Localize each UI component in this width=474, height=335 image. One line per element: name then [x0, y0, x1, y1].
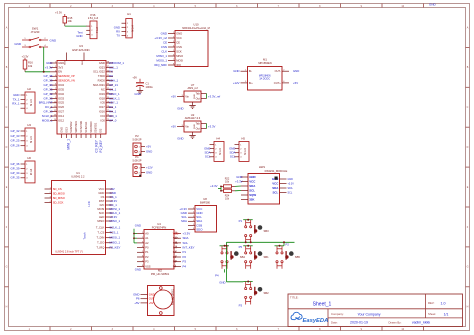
net label +3.3V at HW1 pin2	[235, 180, 243, 184]
svg-text:12: 12	[54, 110, 56, 112]
net label RX_1 at H2	[12, 102, 20, 106]
svg-text:3: 3	[142, 242, 143, 244]
svg-text:DC_1: DC_1	[109, 105, 117, 109]
svg-text:OUT-: OUT-	[275, 69, 281, 73]
svg-text:10k: 10k	[68, 19, 73, 23]
svg-text:2: 2	[55, 66, 56, 68]
net label RX at H1	[116, 30, 120, 34]
svg-text:MISO_1: MISO_1	[110, 219, 121, 223]
svg-text:15: 15	[175, 237, 177, 239]
svg-text:13: 13	[175, 246, 177, 248]
svg-text:SENSOR_VP: SENSOR_VP	[58, 74, 75, 78]
svg-text:7: 7	[142, 260, 143, 262]
net label SDA at U8 pin 4	[181, 219, 187, 223]
net label GP_21 at ESP32 right pin	[109, 83, 118, 87]
svg-text:P2_KEY: P2_KEY	[99, 139, 103, 152]
svg-text:CS: CS	[101, 195, 105, 199]
junction at R22	[220, 186, 222, 188]
net label GND at H4	[204, 147, 210, 151]
svg-text:M 1x4: M 1x4	[133, 25, 135, 32]
svg-text:SCL: SCL	[249, 188, 255, 192]
net label P2 at U4 right pin	[183, 255, 187, 259]
svg-text:Tab: Tab	[196, 121, 201, 125]
svg-text:RXD0: RXD0	[98, 79, 106, 83]
svg-text:P3: P3	[145, 260, 149, 264]
net label CLK at U10 pin 5	[161, 49, 167, 53]
svg-text:+5V: +5V	[293, 81, 298, 85]
svg-text:Sheet_1: Sheet_1	[313, 302, 332, 308]
svg-text:PCF8574PN: PCF8574PN	[152, 225, 167, 229]
svg-text:3: 3	[193, 216, 194, 218]
svg-text:SB5: SB5	[295, 255, 301, 259]
voltage regulator U7 AMS_ref	[177, 83, 207, 108]
svg-text:GND: GND	[194, 94, 196, 99]
svg-text:GP_36: GP_36	[11, 162, 20, 166]
button cap dot at SB5	[289, 251, 294, 256]
svg-text:MISO_1: MISO_1	[109, 92, 120, 96]
switch SW1 JT1230	[22, 27, 48, 48]
net label P5 at SB1	[239, 245, 243, 249]
svg-text:SENSOR_VN: SENSOR_VN	[58, 79, 75, 83]
svg-text:MOSI_1: MOSI_1	[110, 236, 121, 240]
net label GND at P1	[146, 170, 152, 174]
net label P4 at U4 right pin	[183, 264, 187, 268]
svg-text:IO17: IO17	[99, 105, 105, 109]
svg-text:2: 2	[193, 212, 194, 214]
svg-text:P2: P2	[135, 134, 139, 138]
IO expander U4 PCF8574PN	[137, 222, 181, 269]
net label SCL at U4 right pin	[183, 241, 189, 245]
header H1 1x4	[122, 12, 135, 38]
power flag +3.3V at R16	[22, 55, 29, 61]
PIR sensor module M2 PIR_HC-SR501	[141, 269, 175, 316]
label SB5	[295, 255, 301, 259]
svg-text:RX_1: RX_1	[12, 102, 20, 106]
svg-text:IO16: IO16	[99, 110, 105, 114]
svg-text:Touch: Touch	[83, 232, 87, 239]
svg-text:GND: GND	[76, 34, 82, 38]
svg-text:LED: LED	[99, 215, 104, 219]
svg-text:IO0: IO0	[100, 118, 105, 122]
svg-text:2: 2	[142, 237, 143, 239]
svg-text:T_DO: T_DO	[97, 241, 104, 245]
power flag +3.3V at R15	[55, 11, 65, 17]
svg-text:6: 6	[55, 84, 56, 86]
net label MOSI_1 at U1 touch pin	[110, 236, 121, 240]
svg-text:SD_CS: SD_CS	[53, 187, 62, 191]
svg-text:MOSI_1: MOSI_1	[42, 118, 53, 122]
svg-text:13: 13	[54, 115, 56, 117]
svg-text:IO14: IO14	[58, 114, 64, 118]
svg-text:WROOM_1: WROOM_1	[109, 61, 124, 65]
svg-text:Tab: Tab	[196, 91, 201, 95]
svg-text:SCLK_1: SCLK_1	[109, 96, 120, 100]
svg-text:14: 14	[175, 242, 177, 244]
svg-text:GND: GND	[177, 136, 183, 140]
svg-text:M 1x4: M 1x4	[31, 168, 33, 175]
svg-text:OUT: OUT	[149, 297, 155, 301]
svg-text:GP_25: GP_25	[11, 139, 20, 143]
wire bus to SB2	[227, 281, 244, 283]
net label GP_0 at ESP32 right pin	[109, 118, 117, 122]
net label SDA at U4 right pin	[183, 236, 189, 240]
svg-text:DC_1: DC_1	[45, 105, 53, 109]
svg-text:IO12: IO12	[58, 118, 64, 122]
svg-text:C: C	[467, 106, 469, 109]
svg-text:SB3: SB3	[264, 229, 270, 233]
svg-text:GND: GND	[65, 60, 67, 65]
svg-text:SDA: SDA	[288, 187, 293, 190]
wire R24 to HW1 SCL	[235, 190, 241, 192]
svg-text:4: 4	[193, 220, 194, 222]
net label P2_KEY at U1 touch pin	[110, 246, 121, 250]
svg-text:3: 3	[55, 70, 56, 72]
svg-text:CE: CE	[163, 40, 167, 44]
net label SCL at H4	[205, 155, 211, 159]
net label DC_1 at ESP32 left pin 11	[45, 105, 53, 109]
svg-text:SD_SCK: SD_SCK	[53, 200, 64, 204]
svg-text:EasyEDA: EasyEDA	[303, 318, 329, 324]
svg-text:SCK: SCK	[176, 49, 182, 53]
svg-text:AMS_ref: AMS_ref	[187, 86, 197, 90]
svg-text:VCC: VCC	[249, 179, 256, 183]
svg-text:IO34: IO34	[58, 83, 64, 87]
RTC module HW1 DS3231_MODULE	[241, 165, 288, 204]
ESP32 module U3 ESP-32S-WiFi	[50, 44, 113, 138]
net label GND at M2 pin 1	[133, 292, 139, 296]
svg-text:+3.3V_ref: +3.3V_ref	[154, 36, 167, 40]
svg-text:8: 8	[173, 64, 174, 66]
svg-text:+3.3V: +3.3V	[55, 11, 62, 15]
wire R22 to HW1 SDA	[235, 185, 241, 187]
net label GP_36 at H6	[11, 162, 20, 166]
svg-text:8: 8	[142, 265, 143, 267]
svg-text:+3.3V: +3.3V	[210, 184, 218, 188]
net label SDA at H4	[205, 151, 211, 155]
svg-text:MOSI: MOSI	[176, 58, 183, 62]
junction SB5 bus	[283, 241, 285, 243]
svg-text:IO18: IO18	[99, 96, 105, 100]
net label MINI_1 at ESP32 bottom	[67, 139, 71, 150]
net label SCL at H5	[230, 155, 236, 159]
svg-text:+3.3V: +3.3V	[288, 182, 295, 185]
svg-text:5: 5	[173, 50, 174, 52]
voltage regulator U2 AMS1117-3.3	[177, 113, 207, 138]
svg-text:P2: P2	[286, 243, 290, 247]
svg-text:VCC: VCC	[272, 181, 279, 185]
svg-text:MISO: MISO	[97, 219, 104, 223]
svg-text:SDA IO21: SDA IO21	[93, 83, 105, 87]
svg-text:7: 7	[173, 59, 174, 61]
svg-text:MP1584EN: MP1584EN	[259, 75, 271, 77]
wire R15 to P16 pin 1	[65, 25, 87, 27]
svg-text:2.54_1x3: 2.54_1x3	[88, 17, 99, 20]
net label GND top right	[429, 3, 437, 7]
svg-text:9: 9	[55, 97, 56, 99]
svg-text:SCL_1: SCL_1	[109, 65, 118, 69]
svg-text:VCC: VCC	[176, 36, 182, 40]
svg-text:1/1: 1/1	[444, 313, 449, 317]
svg-text:Sheet:: Sheet:	[428, 312, 436, 316]
svg-text:T_IRQ: T_IRQ	[96, 246, 104, 250]
svg-text:6: 6	[173, 55, 174, 57]
net label MISO_1 at U1 touch pin	[110, 241, 121, 245]
net label GP_32 at ESP32 left pin 8	[44, 92, 53, 96]
ground symbol at C1	[137, 90, 143, 94]
svg-text:Out: Out	[196, 96, 200, 100]
svg-text:CSN: CSN	[176, 45, 182, 49]
net label SDA at HW1 right pin	[288, 187, 293, 190]
svg-text:32K: 32K	[249, 197, 255, 201]
svg-text:GND: GND	[59, 127, 63, 133]
svg-text:GND: GND	[134, 92, 140, 96]
svg-text:IO4: IO4	[100, 114, 105, 118]
net label GND at SW1 pin 2	[50, 39, 58, 43]
svg-text:RX_1: RX_1	[109, 110, 117, 114]
svg-text:GND: GND	[194, 124, 196, 129]
net label +5V at M1 OUT+	[293, 81, 298, 85]
net label GND at P16	[76, 34, 82, 38]
svg-text:SDA: SDA	[183, 236, 189, 240]
push button SB5	[275, 245, 289, 269]
net label GND at U4 top left	[135, 224, 141, 228]
wire SB4 bottom lead	[224, 269, 226, 272]
svg-text:P1: P1	[239, 219, 243, 223]
svg-text:M 1x4: M 1x4	[31, 99, 33, 106]
net label +3.3V at U1 pin 8	[110, 199, 118, 203]
svg-text:P2: P2	[145, 255, 149, 259]
svg-text:H2: H2	[27, 87, 31, 91]
svg-text:D: D	[467, 146, 469, 149]
net label KEY_1 at ESP32 right pin	[109, 101, 118, 105]
net label GND at C1	[134, 92, 140, 96]
junction at EN wire	[43, 71, 45, 73]
junction SB3 bus right	[250, 241, 252, 243]
svg-text:Drawn By:: Drawn By:	[389, 320, 402, 324]
net label MISO_1 at U1 pin 13	[110, 219, 121, 223]
svg-text:IO23: IO23	[99, 65, 105, 69]
svg-text:MISO: MISO	[176, 54, 183, 58]
net label GND at H2	[13, 93, 19, 97]
svg-text:+3.3V_ref: +3.3V_ref	[208, 94, 220, 98]
svg-text:IRQ: IRQ	[176, 63, 181, 67]
svg-text:3: 3	[173, 41, 174, 43]
net label C3_KEY at ESP32 bottom	[95, 139, 99, 152]
resistor R22 10k	[221, 178, 235, 189]
svg-text:6: 6	[142, 256, 143, 258]
svg-text:H5: H5	[241, 137, 245, 141]
svg-text:H: H	[6, 306, 8, 309]
svg-text:IO26: IO26	[58, 105, 64, 109]
svg-text:1: 1	[193, 208, 194, 210]
push button SB1	[243, 245, 257, 269]
junction at R24	[220, 190, 222, 192]
svg-text:MISO_1: MISO_1	[110, 241, 121, 245]
net label GND at U1 pin 6	[110, 191, 116, 195]
svg-text:P3: P3	[183, 260, 187, 264]
net label GP_34 at H6	[11, 171, 20, 175]
svg-text:Your Company: Your Company	[357, 313, 380, 317]
svg-text:MISO_1: MISO_1	[156, 54, 167, 58]
svg-text:+5V: +5V	[171, 124, 176, 128]
svg-text:CS_1: CS_1	[109, 87, 117, 91]
svg-text:RST: RST	[99, 199, 105, 203]
svg-text:5: 5	[193, 224, 194, 226]
svg-text:A1: A1	[145, 236, 149, 240]
svg-text:P1: P1	[135, 155, 139, 159]
net label SCLK_1 at ESP32 right pin	[109, 96, 120, 100]
svg-text:GND: GND	[99, 61, 105, 65]
svg-text:GND: GND	[176, 31, 182, 35]
svg-text:8: 8	[55, 93, 56, 95]
svg-text:GND: GND	[233, 69, 239, 73]
net label +3.3V at ESP32 pin2	[45, 65, 53, 69]
push button SB2	[243, 281, 257, 305]
junction SB3 bus left	[245, 241, 247, 243]
svg-text:+5V: +5V	[132, 75, 137, 79]
svg-text:HW1: HW1	[259, 165, 266, 169]
label SB2	[264, 291, 270, 295]
svg-text:U8: U8	[203, 197, 207, 201]
svg-text:10: 10	[54, 101, 56, 103]
title text Sheet_1	[313, 302, 332, 308]
net label P4 at SB4	[215, 274, 219, 278]
net label GP_13 at ESP32 left pin 12	[44, 110, 53, 114]
svg-text:GP_33: GP_33	[44, 96, 53, 100]
net label CE at U10 pin 3	[163, 40, 167, 44]
svg-text:1000u: 1000u	[146, 85, 154, 89]
net label GP_34 at ESP32 left pin 6	[44, 83, 53, 87]
net label GND at button matrix	[219, 281, 225, 285]
net label +3.3V at U1 pin 12	[110, 215, 118, 219]
svg-text:+3.3V: +3.3V	[45, 65, 53, 69]
svg-text:TX: TX	[116, 34, 120, 38]
net label GND at SW1 pin 3	[14, 42, 22, 46]
connector P1 5.08-2P	[132, 155, 145, 177]
svg-text:SB4: SB4	[240, 255, 246, 259]
svg-text:+5V: +5V	[146, 144, 151, 148]
net label GP_35 at H6	[11, 176, 20, 180]
net label GP_36 at ESP32 left pin 4	[44, 74, 53, 78]
button cap dot at SB2	[258, 287, 263, 292]
svg-text:MOSI: MOSI	[97, 207, 104, 211]
svg-text:1: 1	[142, 232, 143, 234]
svg-text:Date:: Date:	[331, 320, 338, 324]
svg-text:BRQ_NRF: BRQ_NRF	[39, 101, 53, 105]
drawn by value vadim_kkkk	[412, 321, 431, 325]
svg-text:GP_33: GP_33	[11, 134, 20, 138]
wire A0-A2 to GND at U4	[133, 229, 137, 243]
header H5 1x4	[235, 137, 250, 162]
svg-text:SDA: SDA	[249, 184, 256, 188]
net label P3 at SB2	[239, 303, 243, 307]
svg-text:+3.3V: +3.3V	[183, 231, 191, 235]
connector P16 2.54-1x3	[86, 13, 99, 39]
svg-text:D/C: D/C	[100, 203, 105, 207]
svg-text:R16: R16	[28, 61, 33, 65]
svg-text:Out: Out	[196, 126, 200, 130]
svg-text:NC: NC	[101, 87, 105, 91]
svg-text:GND: GND	[146, 170, 152, 174]
svg-text:P4: P4	[183, 264, 187, 268]
svg-text:IO27: IO27	[58, 110, 64, 114]
svg-text:GND: GND	[13, 93, 19, 97]
company value Your Company	[357, 313, 380, 317]
net label SDA_1 at ESP32 right pin	[109, 79, 119, 83]
net label P3 at U4 right pin	[183, 260, 187, 264]
svg-text:GND: GND	[135, 224, 141, 228]
svg-text:GP_34: GP_34	[11, 171, 20, 175]
net label MISO_1 at U10 pin 6	[156, 54, 167, 58]
svg-text:14: 14	[54, 119, 56, 121]
net label TX_1 at H2	[13, 97, 20, 101]
net label GP_33 at H3	[11, 134, 20, 138]
net label RX at ESP32 right pin	[109, 74, 113, 78]
svg-text:11: 11	[54, 106, 56, 108]
svg-text:GP_35: GP_35	[11, 176, 20, 180]
svg-text:IO35: IO35	[58, 87, 64, 91]
net label Test at P16	[77, 31, 82, 35]
wire SB5 top to bus	[283, 242, 285, 246]
svg-text:4: 4	[50, 201, 51, 203]
svg-text:CE: CE	[176, 40, 180, 44]
svg-text:NRF24L01+PA+LNA_M: NRF24L01+PA+LNA_M	[182, 26, 210, 30]
svg-text:1: 1	[55, 62, 56, 64]
svg-text:2020-01-19: 2020-01-19	[350, 321, 368, 325]
net label GND at P2	[146, 149, 152, 153]
button cap dot at SB4	[234, 251, 239, 256]
svg-text:SQW: SQW	[249, 193, 256, 197]
net label BRQ_NRF at ESP32 left pin 10	[39, 101, 53, 105]
net label +3.3V at HW1 right pin	[288, 182, 295, 185]
svg-text:GND: GND	[177, 106, 183, 110]
svg-text:1: 1	[50, 188, 51, 190]
title block	[288, 294, 463, 327]
svg-text:GND: GND	[50, 39, 58, 43]
svg-text:GP_36: GP_36	[44, 74, 53, 78]
header H3 1x4	[21, 123, 36, 151]
svg-text:Company:: Company:	[331, 312, 344, 316]
svg-text:SCL IO22: SCL IO22	[93, 70, 105, 74]
svg-text:GND: GND	[249, 175, 255, 179]
wire +3.3V to R22 R24	[218, 186, 221, 190]
button cap dot at SB3	[258, 225, 263, 230]
svg-text:PIR_HC-SR501: PIR_HC-SR501	[151, 272, 170, 276]
net label GP_26 at H3	[11, 144, 20, 148]
svg-text:5: 5	[55, 79, 56, 81]
net label MISO_1 at ESP32 right pin	[109, 92, 120, 96]
svg-text:5.08-2P: 5.08-2P	[132, 159, 141, 163]
svg-text:G: G	[6, 266, 8, 269]
net label +3.3V_ref at U10 pin 2	[154, 36, 167, 40]
net label GND at U8 pin 2	[181, 211, 187, 215]
svg-text:SCK/CLK: SCK/CLK	[84, 121, 88, 132]
svg-text:GP_32: GP_32	[44, 92, 53, 96]
svg-text:P3: P3	[239, 303, 243, 307]
svg-text:CSN: CSN	[161, 45, 167, 49]
date value 2020-01-19	[350, 321, 368, 325]
net label TCS_1 at U1 touch pin	[110, 231, 119, 235]
net label GND at U10 pin 1	[161, 31, 167, 35]
svg-text:IO5: IO5	[100, 101, 105, 105]
svg-text:SCL: SCL	[205, 155, 211, 159]
resistor R15 10k	[63, 16, 73, 26]
svg-text:IRQ_NRF: IRQ_NRF	[154, 63, 167, 67]
revision value 1.0	[441, 302, 446, 306]
svg-text:GND: GND	[98, 191, 104, 195]
svg-text:EN: EN	[58, 70, 62, 74]
svg-text:P2_KEY: P2_KEY	[110, 246, 121, 250]
